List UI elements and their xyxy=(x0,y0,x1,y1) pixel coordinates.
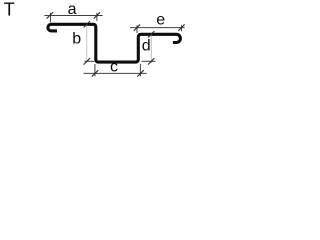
profile cross-section (sheet with lips) xyxy=(48,24,181,62)
dimension a: left extension line xyxy=(49,13,51,22)
dimension c: left tick xyxy=(92,70,98,76)
dimension e: dim line xyxy=(130,27,185,29)
dimension a: right tick xyxy=(94,12,100,18)
dimension e: right extension line xyxy=(181,25,183,31)
dimension e: right tick xyxy=(178,24,184,30)
svg-text:e: e xyxy=(156,12,165,29)
dimension b: bottom tick xyxy=(84,58,90,64)
dimension b: dim line xyxy=(86,24,88,62)
dimension c: right tick xyxy=(137,70,143,76)
svg-text:a: a xyxy=(68,1,77,18)
dimension d: bottom tick xyxy=(148,58,154,64)
dimension d: dim line xyxy=(150,34,152,64)
dimension b: top tick xyxy=(84,21,90,27)
svg-text:b: b xyxy=(72,31,81,48)
dimension c: right extension line xyxy=(139,64,141,77)
dimension d: top tick xyxy=(148,31,154,37)
svg-text:T: T xyxy=(4,0,15,20)
dimension a: dim line xyxy=(44,14,102,16)
dimension b: bottom extension line xyxy=(85,60,95,62)
dimension d: bottom extension line xyxy=(142,60,156,62)
dimension a: right extension line xyxy=(96,13,98,21)
svg-text:c: c xyxy=(110,59,118,76)
dimension c: dim line xyxy=(84,72,147,74)
svg-text:d: d xyxy=(142,38,151,55)
dimension a: left tick xyxy=(47,12,53,18)
dimension e: left tick xyxy=(134,24,140,30)
dimension e: left extension line xyxy=(136,25,138,33)
dimension c: left extension line xyxy=(94,64,96,77)
